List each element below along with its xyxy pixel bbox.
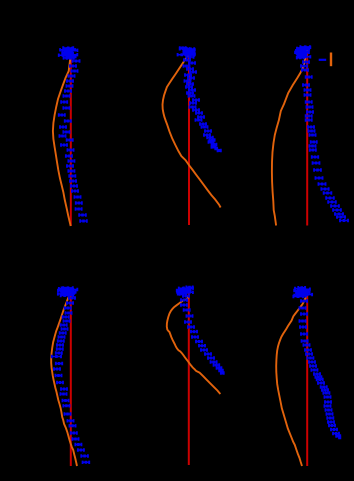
bottom-middle panel: orange model curve (167, 295, 221, 394)
top-right panel: red vertical reference line (306, 48, 308, 226)
top-right panel: orange model curve (272, 49, 307, 226)
bottom-left panel: orange model curve (51, 291, 77, 466)
top-middle panel: blue data error bars (178, 48, 221, 151)
bottom-right panel: red vertical reference line (306, 294, 308, 466)
top-left panel: blue data error bars (59, 48, 87, 221)
top-right panel: blue data error bars (295, 47, 348, 221)
bottom-left panel: red vertical reference line (70, 291, 72, 466)
top-left panel: orange model curve (53, 48, 71, 226)
legend: blue data marker sample (319, 59, 327, 61)
bottom-left panel: blue data error bars (52, 288, 89, 462)
bottom-right panel: blue data error bars (293, 288, 340, 438)
top-left panel: red vertical reference line (70, 48, 72, 226)
legend: orange line sample (vertical tick) (330, 53, 332, 67)
top-middle panel: orange model curve (163, 50, 221, 208)
top-middle panel: red vertical reference line (188, 48, 190, 225)
bottom-right panel: orange model curve (276, 294, 307, 466)
bottom-middle panel: blue data error bars (177, 287, 224, 373)
bottom-middle panel: red vertical reference line (188, 292, 190, 465)
